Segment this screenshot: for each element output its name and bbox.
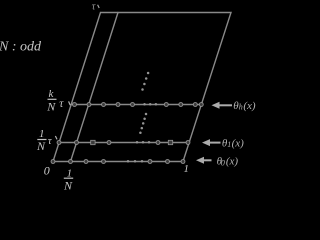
svg-text:1: 1 bbox=[184, 163, 190, 175]
svg-text:0: 0 bbox=[44, 164, 50, 178]
svg-text:(x): (x) bbox=[243, 100, 256, 112]
svg-text:0: 0 bbox=[221, 159, 225, 168]
svg-text:N: N bbox=[46, 100, 56, 114]
svg-text:N: N bbox=[36, 139, 46, 153]
svg-text:h: h bbox=[239, 103, 243, 112]
svg-text:N: N bbox=[63, 178, 73, 191]
svg-text:N : odd: N : odd bbox=[0, 40, 42, 55]
svg-text:(x): (x) bbox=[226, 155, 239, 167]
svg-text:(x): (x) bbox=[232, 137, 245, 149]
